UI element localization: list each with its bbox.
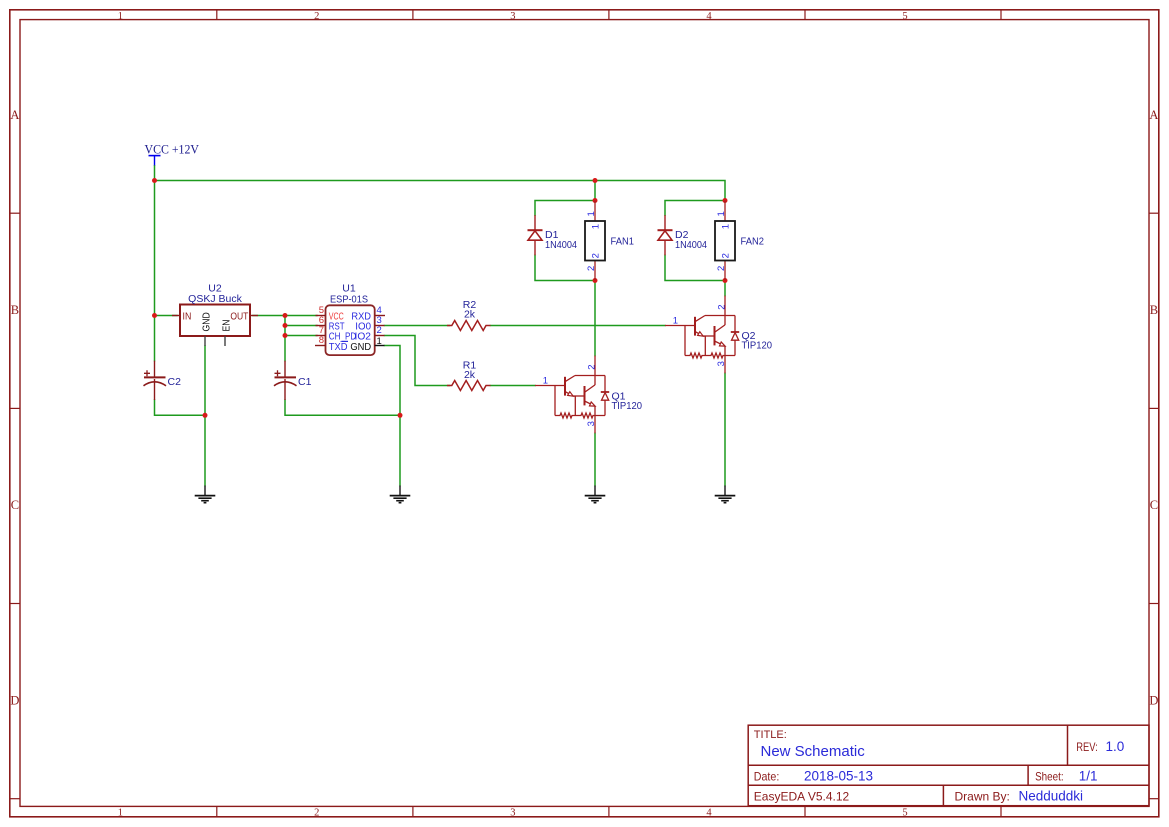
svg-text:2: 2 bbox=[591, 253, 602, 258]
ground symbol 3 bbox=[585, 486, 606, 503]
svg-text:1: 1 bbox=[118, 11, 123, 22]
svg-text:2: 2 bbox=[716, 266, 727, 271]
IC U2 QSKJ Buck bbox=[172, 305, 258, 347]
svg-text:2: 2 bbox=[377, 325, 382, 336]
wire VCC branch vertical at C1 bbox=[284, 316, 286, 361]
svg-text:TIP120: TIP120 bbox=[742, 339, 773, 351]
svg-text:EN: EN bbox=[222, 320, 233, 332]
svg-text:2k: 2k bbox=[464, 308, 476, 320]
svg-text:GND: GND bbox=[202, 312, 213, 331]
svg-text:IN: IN bbox=[183, 311, 192, 322]
svg-text:2k: 2k bbox=[464, 369, 476, 381]
svg-text:A: A bbox=[10, 108, 19, 122]
svg-text:3: 3 bbox=[510, 11, 515, 22]
wire R1 to Q1 base bbox=[491, 385, 536, 387]
fan FAN2 bbox=[715, 201, 735, 281]
frame column numbers top bbox=[118, 11, 908, 22]
svg-text:C: C bbox=[11, 498, 19, 512]
svg-text:1: 1 bbox=[716, 211, 727, 216]
svg-text:2: 2 bbox=[314, 11, 319, 22]
svg-text:Drawn By:: Drawn By: bbox=[955, 789, 1010, 803]
svg-text:GND: GND bbox=[350, 342, 371, 353]
wire C1 bottom to GND node bbox=[285, 400, 400, 415]
svg-text:1: 1 bbox=[377, 336, 382, 347]
svg-text:1/1: 1/1 bbox=[1079, 768, 1098, 783]
IC U1 ESP-01S bbox=[315, 305, 385, 355]
title block lines bbox=[748, 725, 1149, 806]
wire GND node 2 down bbox=[399, 415, 401, 485]
svg-text:1N4004: 1N4004 bbox=[675, 239, 707, 251]
svg-text:1: 1 bbox=[543, 376, 548, 387]
wire FAN2 to Q2 collector bbox=[724, 281, 726, 296]
wire U2 OUT to U1 VCC bbox=[253, 315, 317, 317]
wire U1 GND pin to node bbox=[385, 346, 401, 416]
svg-text:New Schematic: New Schematic bbox=[761, 743, 866, 760]
svg-text:1: 1 bbox=[586, 211, 597, 216]
svg-text:8: 8 bbox=[319, 335, 324, 346]
diode D1 bbox=[528, 215, 543, 255]
svg-text:QSKJ Buck: QSKJ Buck bbox=[188, 293, 242, 305]
svg-text:4: 4 bbox=[706, 808, 712, 819]
transistor Q1 TIP120 bbox=[535, 356, 609, 434]
resistor R2 bbox=[447, 321, 491, 331]
net flag VCC +12V bbox=[145, 142, 200, 166]
svg-text:B: B bbox=[1150, 303, 1158, 317]
svg-text:1.0: 1.0 bbox=[1106, 739, 1125, 754]
wire D1 bottom bbox=[535, 255, 595, 280]
wire VCC down to U2 IN bbox=[155, 181, 178, 316]
wire VCC flag stub bbox=[154, 166, 156, 181]
diode D2 bbox=[658, 215, 673, 255]
svg-text:TITLE:: TITLE: bbox=[754, 729, 787, 741]
wire FAN1 to Q1 collector bbox=[594, 281, 596, 356]
frame row letters right bbox=[1149, 108, 1158, 708]
svg-text:B: B bbox=[11, 303, 19, 317]
wire R2 to Q2 base bbox=[491, 325, 666, 327]
wire IO2 to R1 bbox=[385, 336, 450, 386]
ground symbol 1 bbox=[195, 486, 216, 503]
junction dots bbox=[152, 178, 728, 418]
svg-text:1: 1 bbox=[721, 224, 732, 229]
svg-text:2: 2 bbox=[586, 266, 597, 271]
wire branch to RST bbox=[285, 325, 317, 327]
capacitor C2 bbox=[144, 361, 167, 400]
wire VCC down to C2 bbox=[154, 316, 156, 361]
svg-text:FAN2: FAN2 bbox=[741, 236, 765, 248]
svg-text:D: D bbox=[10, 693, 19, 707]
svg-text:5: 5 bbox=[902, 11, 907, 22]
svg-text:REV:: REV: bbox=[1076, 740, 1098, 754]
wire D2 bottom bbox=[665, 255, 725, 280]
frame row letters left bbox=[10, 108, 19, 708]
transistor Q2 TIP120 bbox=[665, 296, 739, 374]
svg-text:1N4004: 1N4004 bbox=[545, 239, 577, 251]
svg-text:A: A bbox=[1149, 108, 1158, 122]
svg-text:2: 2 bbox=[586, 365, 597, 370]
svg-text:2: 2 bbox=[721, 253, 732, 258]
ground symbol 4 bbox=[715, 486, 736, 503]
svg-text:FAN1: FAN1 bbox=[611, 236, 635, 248]
svg-text:2018-05-13: 2018-05-13 bbox=[804, 768, 873, 783]
svg-text:5: 5 bbox=[902, 808, 907, 819]
resistor R1 bbox=[447, 381, 491, 391]
frame column numbers bottom bbox=[118, 808, 908, 819]
svg-text:C: C bbox=[1150, 498, 1158, 512]
wire C2 bottom to GND node bbox=[155, 400, 206, 415]
wire GND node 1 down bbox=[204, 415, 206, 485]
wire FAN1/D1 top link bbox=[535, 201, 595, 216]
ground symbol 2 bbox=[390, 486, 411, 503]
wire FAN2/D2 top link bbox=[665, 201, 725, 216]
svg-text:EasyEDA V5.4.12: EasyEDA V5.4.12 bbox=[754, 789, 850, 803]
svg-text:1: 1 bbox=[591, 224, 602, 229]
svg-text:TIP120: TIP120 bbox=[612, 400, 643, 412]
svg-text:1: 1 bbox=[118, 808, 123, 819]
svg-text:3: 3 bbox=[510, 808, 515, 819]
svg-text:4: 4 bbox=[706, 11, 712, 22]
wire FAN1 branch drop bbox=[594, 181, 596, 201]
wire IO0 to R2 bbox=[385, 325, 450, 327]
wire branch to CH_PD bbox=[285, 335, 317, 337]
wire VCC top rail bbox=[155, 181, 726, 201]
svg-text:D: D bbox=[1149, 693, 1158, 707]
svg-text:2: 2 bbox=[314, 808, 319, 819]
svg-text:3: 3 bbox=[586, 421, 597, 426]
wires (net VCC and others) bbox=[155, 166, 726, 486]
svg-text:ESP-01S: ESP-01S bbox=[330, 293, 368, 305]
wire U2 GND pin down bbox=[204, 346, 206, 415]
svg-text:C1: C1 bbox=[298, 376, 312, 388]
svg-text:Nedduddki: Nedduddki bbox=[1019, 788, 1084, 803]
svg-text:VCC +12V: VCC +12V bbox=[145, 142, 200, 157]
svg-text:Sheet:: Sheet: bbox=[1035, 769, 1064, 783]
wire Q1 emitter to GND bbox=[594, 433, 596, 485]
capacitor C1 bbox=[274, 361, 297, 400]
wire Q2 emitter to GND bbox=[724, 373, 726, 485]
svg-text:TXD: TXD bbox=[329, 342, 348, 353]
fan FAN1 bbox=[585, 201, 605, 281]
svg-text:C2: C2 bbox=[168, 376, 182, 388]
svg-text:Date:: Date: bbox=[754, 769, 780, 783]
svg-text:OUT: OUT bbox=[230, 311, 248, 322]
